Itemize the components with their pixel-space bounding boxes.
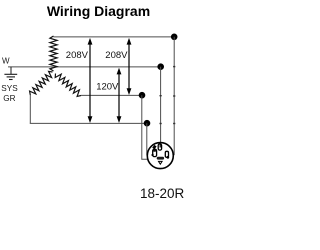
wire from winding Z to node C [81, 94, 142, 96]
wire phase A vertical to receptacle [168, 37, 174, 155]
pin stub wire B into top slot [159, 144, 161, 148]
svg-text:W: W [2, 57, 10, 66]
receptacle keying mark [152, 145, 156, 150]
node A [171, 34, 178, 41]
receptacle 18-20R body [147, 143, 173, 169]
wire phase D vertical to receptacle [147, 123, 153, 155]
svg-text:SYS: SYS [1, 84, 18, 93]
junction tick A at y123.4 [173, 123, 175, 124]
receptacle top slot [158, 144, 161, 150]
wire from winding Y down [29, 95, 31, 123]
ground SYS GR stem [10, 67, 12, 74]
dimension arrow 120V [118, 71, 120, 120]
transformer winding lower-right (phase Z) [55, 74, 81, 97]
receptacle right slot [165, 151, 168, 157]
dimension arrow 208V left [89, 42, 91, 120]
ground bar 1 [4, 73, 17, 75]
wire top from winding X to node A [54, 36, 175, 38]
transformer winding vertical (phase X) [50, 36, 57, 71]
transformer winding lower-left (phase Y) [30, 71, 53, 95]
node C [139, 92, 146, 99]
junction tick B at y123.4 [160, 123, 162, 124]
ground bar 3 [9, 79, 13, 81]
junction tick A at y95 [173, 95, 175, 96]
svg-text:208V: 208V [105, 50, 128, 61]
wire tip at left slot [152, 154, 154, 156]
wire W neutral horizontal [8, 66, 161, 68]
receptacle bottom slot [157, 157, 164, 160]
junction tick A at y66.7 [173, 66, 175, 67]
svg-text:18-20R: 18-20R [140, 186, 185, 201]
svg-text:Wiring Diagram: Wiring Diagram [47, 3, 150, 19]
svg-text:120V: 120V [96, 82, 119, 93]
left slot dark top [153, 150, 156, 152]
svg-text:GR: GR [3, 94, 15, 103]
junction tick B at y95 [160, 95, 162, 96]
node D [144, 120, 151, 127]
wire bottom to node D [30, 122, 147, 124]
receptacle left slot [153, 149, 157, 156]
receptacle ground triangle [159, 161, 163, 164]
wire phase C vertical to receptacle [142, 95, 157, 159]
wire phase B vertical to receptacle [160, 67, 162, 145]
node B [157, 63, 164, 70]
ground bar 2 [7, 76, 15, 78]
wire tip at right slot [166, 156, 169, 159]
svg-text:208V: 208V [66, 50, 89, 61]
dimension arrow 208V right [128, 42, 130, 92]
